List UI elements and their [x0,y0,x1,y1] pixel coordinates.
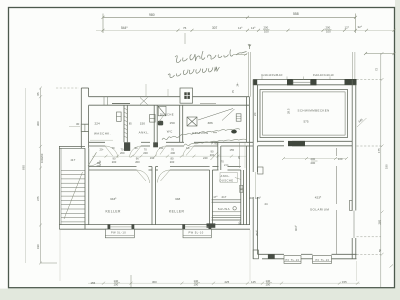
svg-text:65: 65 [36,92,40,95]
svg-text:20⁵: 20⁵ [100,148,104,152]
svg-text:70: 70 [121,147,124,151]
svg-text:544⁵: 544⁵ [121,26,128,30]
svg-text:80: 80 [171,156,174,160]
wall bottom of utility block with door gaps [89,142,218,146]
svg-text:100: 100 [326,29,331,33]
stair door leaf [88,152,97,166]
svg-text:558: 558 [293,12,299,16]
svg-text:190: 190 [36,244,40,249]
svg-text:200: 200 [143,151,148,155]
svg-text:F. 93: F. 93 [212,142,218,146]
svg-text:12⁵: 12⁵ [186,146,190,150]
svg-text:190: 190 [385,164,389,169]
pool basin [260,90,348,138]
svg-text:386: 386 [208,121,213,125]
faint extension verticals bottom [60,230,357,281]
svg-text:KELLER: KELLER [169,210,185,214]
dimension line top row1 [102,14,358,34]
svg-text:PW 5L-10: PW 5L-10 [111,230,126,234]
svg-text:DUSCHE: DUSCHE [220,178,234,182]
chimney block on top wall [180,88,193,103]
svg-text:603⁵: 603⁵ [294,225,298,231]
boiler with X [187,117,197,126]
svg-text:90: 90 [113,156,116,160]
svg-text:190: 190 [159,146,164,150]
svg-text:200: 200 [135,160,140,164]
svg-text:300: 300 [152,280,157,284]
svg-text:150: 150 [140,121,145,125]
window in left wall [81,124,88,131]
partition wc/heizung [180,105,183,142]
svg-text:PF TL-10: PF TL-10 [286,259,300,262]
svg-text:24: 24 [250,196,254,200]
wall left outer [81,88,88,148]
dim line sauna east [238,142,240,168]
svg-text:348: 348 [175,197,180,201]
keller doors arcs [137,170,171,183]
dark door threshold sauna [207,223,216,227]
svg-text:200: 200 [171,151,176,155]
svg-text:190: 190 [150,156,155,160]
svg-text:307: 307 [212,26,218,30]
svg-text:50: 50 [378,248,382,252]
keller top wall [89,167,210,170]
svg-text:HEIZUNG: HEIZUNG [192,131,209,135]
svg-text:96: 96 [136,156,139,160]
window well 2 [183,229,211,238]
svg-text:200: 200 [311,161,316,165]
svg-text:ANKL.: ANKL. [221,174,231,178]
svg-text:SCHWIMMBECKEN: SCHWIMMBECKEN [298,109,330,113]
solarium sw corner block [253,250,258,259]
solarium top dim ticks [282,157,348,160]
svg-text:145: 145 [251,280,256,284]
bottom margin strip [0,289,400,300]
sauna block door leaf [211,152,218,160]
door arcs into corridor [105,146,194,158]
svg-text:300: 300 [36,121,40,126]
dim row right y53 [364,52,396,55]
window right wall [353,211,355,239]
dim label 200/100 [263,26,270,34]
svg-text:SOLARIUM: SOLARIUM [310,208,329,212]
svg-text:100/200: 100/200 [40,153,44,163]
dim vertical x382 [357,52,384,287]
solarium inner window line [336,148,338,254]
svg-text:200: 200 [120,151,125,155]
svg-text:217: 217 [222,195,227,199]
anteroom east wall [241,170,244,225]
window jambs bottom wall [108,224,212,229]
svg-text:2.0⁵: 2.0⁵ [224,163,229,167]
window box solarium 2 [313,256,332,264]
svg-text:Fv10-10 Fv45-10⁴: Fv10-10 Fv45-10⁴ [262,73,284,77]
svg-text:155: 155 [342,280,347,284]
svg-text:DUSCHE: DUSCHE [160,112,174,116]
svg-text:175: 175 [377,148,381,153]
svg-text:200: 200 [112,160,117,164]
svg-text:125⁵: 125⁵ [255,196,261,200]
window blocks top wall [287,79,293,85]
shaft ankl [150,115,156,123]
svg-text:90: 90 [211,149,214,153]
sauna benches [212,212,240,216]
sauna block top wall [218,142,253,146]
sauna stove [233,207,236,210]
bottom wall of left block [59,225,250,230]
sauna block west stub wall [218,142,221,170]
pool right wall [350,80,356,259]
svg-text:100: 100 [114,283,119,287]
svg-text:100: 100 [194,283,199,287]
pool room bottom wall [258,141,353,146]
keller center wall [152,167,156,225]
flue diagonals [198,109,235,121]
svg-text:224: 224 [95,121,100,125]
sauna north wall [212,200,241,202]
step block [268,254,275,258]
svg-text:72: 72 [375,67,379,71]
stair right wall [85,148,89,229]
svg-text:SAUNA: SAUNA [218,207,230,211]
svg-text:WC: WC [167,130,173,134]
door mark in top wall [104,97,148,106]
svg-text:76: 76 [183,26,187,30]
svg-text:PW 5L-10: PW 5L-10 [189,230,204,234]
solarium bottom wall [258,254,357,258]
svg-text:PF TL-10: PF TL-10 [316,259,330,262]
partition ankl/wc [154,105,157,142]
svg-text:70: 70 [171,147,174,151]
keller2 right wall [210,170,213,225]
svg-text:100: 100 [264,29,269,33]
pier ankl/wc dark [153,142,158,147]
extension lines above walls [185,33,355,97]
heizung tank [236,114,241,121]
shaft box at solarium left wall [258,167,264,174]
svg-text:980: 980 [149,13,155,17]
svg-text:26⁵: 26⁵ [238,221,242,225]
svg-text:WASCHK.: WASCHK. [94,132,111,136]
svg-text:343⁵: 343⁵ [110,197,117,201]
svg-text:100: 100 [338,157,343,161]
svg-text:575: 575 [304,119,309,123]
svg-text:28.5: 28.5 [287,108,291,114]
partition waschk/ankl hatched [124,105,127,142]
svg-text:ANKL.: ANKL. [139,131,150,135]
window box solarium 1 [284,256,301,264]
stair break diagonal [64,172,83,219]
stair shaft left wall [58,146,60,229]
svg-text:40.T: 40.T [71,159,76,162]
wc toilet dark [158,121,163,126]
svg-text:200: 200 [170,160,175,164]
svg-text:252⁵: 252⁵ [255,230,259,236]
svg-text:30: 30 [76,122,80,126]
dim label 200/100 b [325,26,332,34]
window sill marks on top wall [112,103,130,105]
dim tick at x247 y54 [233,53,248,56]
faint waschk inner line [90,139,113,141]
svg-text:70: 70 [144,147,147,151]
door block pool/solarium [288,141,305,146]
boiler dark blob [231,130,237,134]
svg-text:24⁵: 24⁵ [253,112,257,116]
wall right of heizung [247,97,250,225]
svg-text:155: 155 [91,281,96,285]
svg-text:375: 375 [36,196,40,201]
pool left wall [253,80,257,259]
svg-text:150: 150 [170,121,175,125]
svg-text:240: 240 [203,156,208,160]
svg-text:285: 285 [377,219,381,224]
handwriting annotation top [168,44,251,78]
svg-text:24⁵: 24⁵ [236,83,240,87]
dimension line top row2 [96,29,396,32]
extension stubs above top wall [146,84,168,97]
svg-text:830: 830 [22,165,26,170]
svg-text:155: 155 [230,148,235,152]
wall top of utility block [89,97,250,106]
svg-text:100: 100 [266,283,271,287]
svg-text:94: 94 [135,146,138,150]
svg-text:Fv10-10 Fv10-10: Fv10-10 Fv10-10 [313,73,334,77]
window well 1 [105,229,134,238]
corridor dim chain line [92,155,246,157]
stair shaft top wall [59,146,85,148]
washbasin waschk [117,112,122,121]
pool top wall [253,80,356,85]
stair treads [61,170,85,222]
door jamb pier dark [124,142,130,151]
tick bottom right [390,265,394,268]
svg-text:225: 225 [225,280,230,284]
svg-text:24: 24 [265,202,269,206]
wc shower tray [158,106,166,116]
anteroom top wall segments [212,167,240,170]
svg-text:70: 70 [112,146,115,150]
heizung handwriting [162,129,246,146]
right margin strip [395,0,400,300]
svg-text:423⁵: 423⁵ [315,195,322,199]
sauna south wall [212,218,241,220]
svg-text:KELLER: KELLER [106,210,122,214]
extension ticks above pool wall [262,75,330,80]
